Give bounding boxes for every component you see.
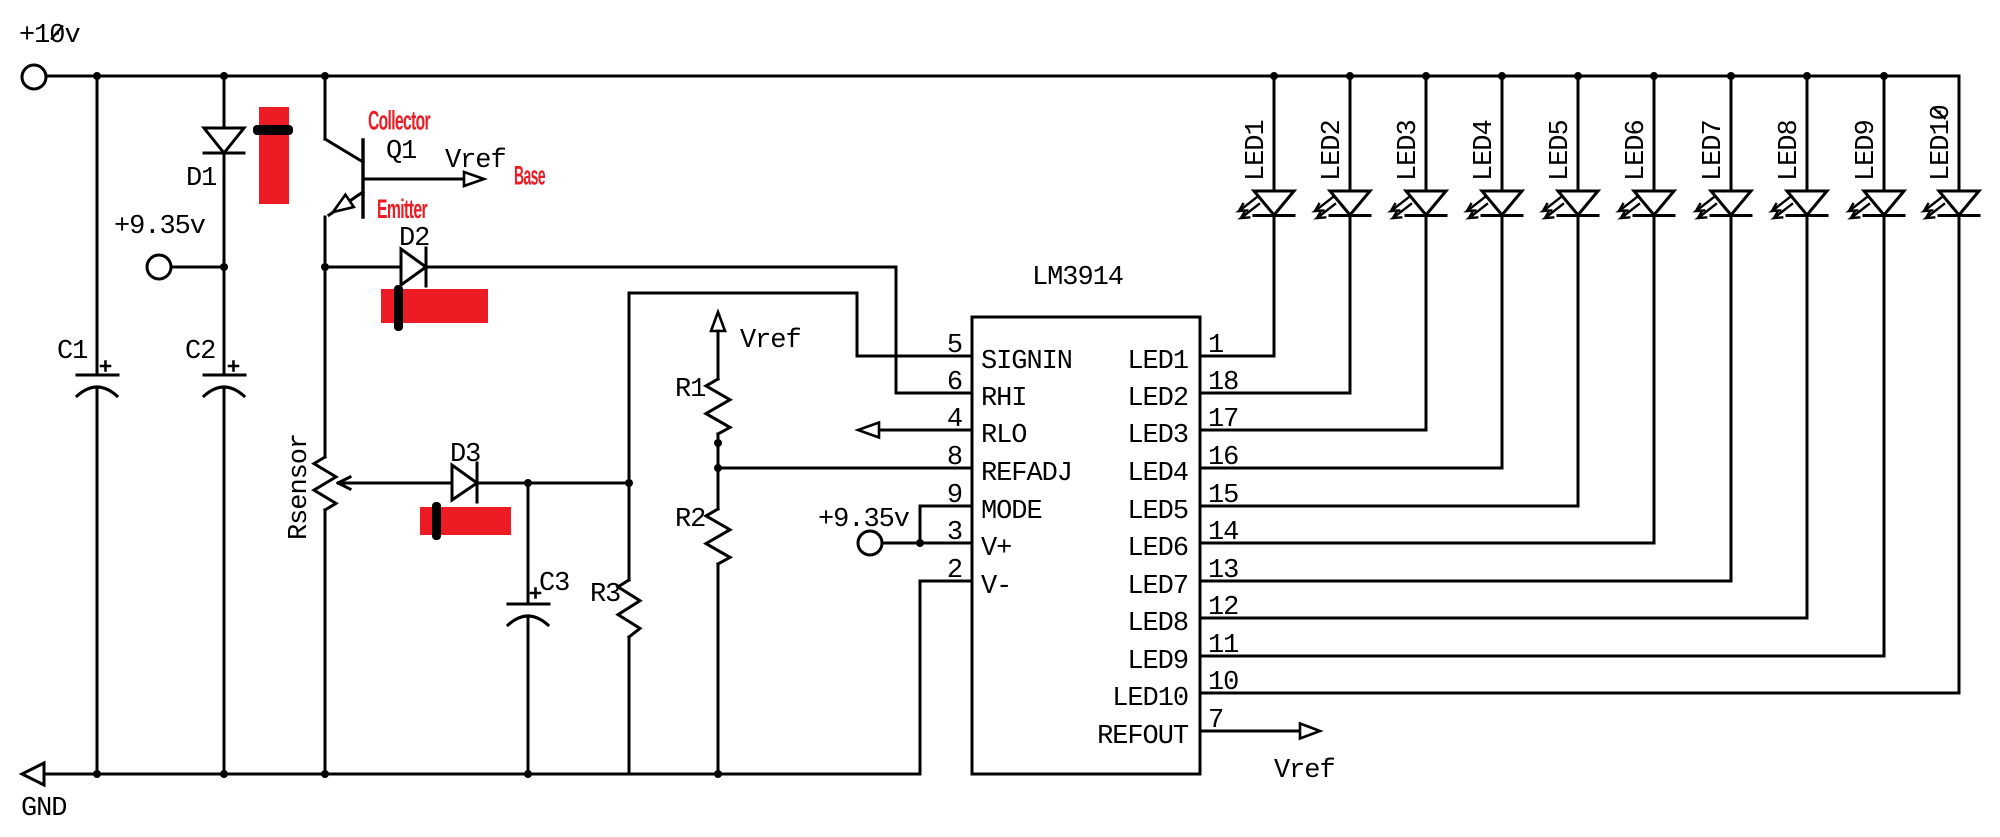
wire RLO pin 4 [879,429,972,432]
junction LED9 on +10v rail [1880,72,1888,80]
terminal +9.35v (V+) [858,531,882,555]
svg-text:R3: R3 [590,580,620,610]
svg-text:12: 12 [1208,593,1238,623]
svg-text:MODE: MODE [981,497,1042,527]
wire Q1 base to Vref arrow [363,178,464,181]
svg-text:R1: R1 [675,375,705,405]
wire Q1 collector from rail [324,76,327,139]
ground arrow [22,763,44,785]
junction LED3 on +10v rail [1422,72,1430,80]
resistor R1 [706,379,730,434]
resistor R2 [706,509,730,564]
junction D1 on +10v rail [220,72,228,80]
junction C1 on ground rail [93,770,101,778]
wire D2 to RHI corner [426,266,896,269]
svg-text:Collector: Collector [368,106,431,136]
wire Rsensor wiper to D3 [339,482,452,485]
wire pin 15 to LED5 column [1200,505,1578,508]
wire terminal to D1 column [171,266,224,269]
red marker over D2 [381,289,488,323]
svg-text:V+: V+ [981,534,1011,564]
svg-text:R2: R2 [675,505,705,535]
svg-text:LED6: LED6 [1127,534,1188,564]
wire D3 cathode to C3 node [477,482,528,485]
diode D1 [204,128,244,153]
svg-text:GND: GND [21,794,66,824]
red marker over D3 [420,507,511,535]
junction R2 on ground rail [714,770,722,778]
wire Vref arrow to R1 [717,331,720,379]
wire R3 node up to SIGNIN route [628,293,631,483]
svg-text:6: 6 [947,368,962,398]
junction R3 top [625,479,633,487]
wire C3 top [527,483,530,604]
junction LED7 on +10v rail [1727,72,1735,80]
wire Q1 emitter down [324,217,327,267]
wire R3 bottom to ground [628,637,631,774]
resistor R3 [618,580,640,637]
junction LED1 on +10v rail [1270,72,1278,80]
svg-text:C3: C3 [539,569,569,599]
svg-text:17: 17 [1208,405,1238,435]
junction Q1 emitter / D2 [321,263,329,271]
potentiometer Rsensor [314,457,336,510]
svg-text:16: 16 [1208,443,1238,473]
svg-text:RHI: RHI [981,384,1026,414]
black band on D1 marker [253,125,293,135]
terminal +9.35v (left) [147,255,171,279]
LED6 [1619,76,1674,543]
C1 polarity + [101,362,110,371]
svg-text:D1: D1 [186,164,216,194]
svg-text:D2: D2 [399,224,429,254]
wire C1 branch top [96,76,99,375]
svg-text:LED5: LED5 [1546,120,1576,181]
svg-text:13: 13 [1208,556,1238,586]
wire R3 top [628,483,631,580]
wire R2 bottom to ground [717,564,720,774]
junction LED5 on +10v rail [1574,72,1582,80]
arrow Vref (R1 top) [711,312,725,331]
slashed zero of LED10 label [1933,107,1946,119]
svg-text:LED3: LED3 [1127,421,1188,451]
wire RHI vertical into pin 6 [896,267,972,393]
diode D2 [401,249,426,285]
wire pin 12 to LED8 column [1200,617,1807,620]
wire pin 17 to LED3 column [1200,429,1426,432]
wire pin 16 to LED4 column [1200,467,1502,470]
svg-text:LM3914: LM3914 [1032,263,1123,293]
junction MODE / V+ [916,539,924,547]
svg-text:LED7: LED7 [1127,572,1188,602]
wire Rsensor bottom to ground [324,510,327,774]
LED2 [1315,76,1370,393]
svg-text:C1: C1 [57,337,87,367]
terminal +10v [22,65,46,89]
junction REFADJ node [714,464,722,472]
wire +10v top rail [46,75,1959,78]
black band on D3 marker [432,502,441,540]
capacitor C2 [204,374,245,377]
svg-text:Rsensor: Rsensor [285,434,315,540]
Rsensor wiper arrow [338,477,350,489]
svg-text:14: 14 [1208,518,1238,548]
LED4 [1467,76,1522,468]
junction C3 top [524,479,532,487]
arrow RLO [858,423,879,438]
black band on D2 marker [394,285,403,331]
svg-text:11: 11 [1208,631,1238,661]
svg-text:LED1: LED1 [1127,347,1188,377]
svg-text:LED1: LED1 [1242,120,1272,181]
svg-text:Vref: Vref [445,146,506,176]
wire SIGNIN route [629,293,972,356]
svg-text:5: 5 [947,331,962,361]
arrow Vref (base) [464,172,484,186]
wire pin 10 to LED10 column [1200,692,1959,695]
wire pin 14 to LED6 column [1200,542,1654,545]
diode D3 [452,465,477,500]
LED1 [1239,76,1294,356]
junction Rsensor on ground rail [321,770,329,778]
C2 polarity + [229,362,238,371]
LED8 [1772,76,1827,618]
junction Q1 on +10v rail [321,72,329,80]
svg-text:+9.35v: +9.35v [818,505,910,535]
C3 polarity + [531,589,540,598]
transistor Q1 [325,139,363,162]
wire pin 13 to LED7 column [1200,580,1731,583]
wire REFOUT pin 7 [1200,730,1300,733]
junction R1 bottom [714,439,722,447]
LED9 [1849,76,1904,656]
svg-text:LED8: LED8 [1775,120,1805,181]
junction LED4 on +10v rail [1498,72,1506,80]
wire V- pin 2 to ground [920,581,972,774]
svg-text:LED2: LED2 [1318,120,1348,181]
svg-text:Base: Base [514,161,546,191]
junction LED2 on +10v rail [1346,72,1354,80]
wire C3 node to R3 node [528,482,629,485]
arrow Vref (REFOUT) [1300,724,1320,739]
wire R1 bottom to REFADJ node [717,434,720,468]
svg-text:LED9: LED9 [1127,647,1188,677]
junction +9.35v / D1 column [220,263,228,271]
svg-text:18: 18 [1208,368,1238,398]
svg-text:7: 7 [1208,706,1223,736]
junction LED8 on +10v rail [1803,72,1811,80]
wire D1 cathode down [223,153,226,375]
wire emitter node down to Rsensor [324,267,327,457]
wire MODE pin 9 to V+ [920,506,972,543]
LED10 [1924,76,1979,693]
wire pin 18 to LED2 column [1200,392,1350,395]
red marker over D1 [259,107,289,204]
capacitor C1 [77,374,118,377]
svg-text:+9.35v: +9.35v [114,212,206,242]
wire pin 11 to LED9 column [1200,655,1884,658]
svg-text:C2: C2 [185,337,215,367]
svg-text:LED9: LED9 [1852,120,1882,181]
svg-text:SIGNIN: SIGNIN [981,347,1072,377]
svg-text:D3: D3 [450,440,480,470]
op-amp U1 LM3914 body [972,317,1200,774]
svg-text:Emitter: Emitter [377,194,428,224]
svg-text:Vref: Vref [1274,756,1335,786]
svg-text:+10v: +10v [19,21,80,51]
capacitor C3 [508,603,549,606]
LED3 [1391,76,1446,430]
wire REFADJ node to R2 [717,468,720,509]
svg-text:RLO: RLO [981,421,1026,451]
wire REFADJ pin 8 [718,467,972,470]
svg-text:LED2: LED2 [1127,384,1188,414]
svg-text:9: 9 [947,481,962,511]
LED5 [1543,76,1598,506]
svg-text:LED4: LED4 [1127,459,1188,489]
svg-text:REFOUT: REFOUT [1097,722,1189,752]
svg-text:3: 3 [947,518,962,548]
junction C1 on +10v rail [93,72,101,80]
svg-text:1: 1 [1208,331,1223,361]
svg-text:2: 2 [947,556,962,586]
wire pin 1 to LED1 column [1200,355,1274,358]
svg-text:LED10: LED10 [1112,684,1188,714]
svg-text:LED6: LED6 [1622,120,1652,181]
svg-text:V-: V- [981,572,1011,602]
wire emitter node to D2 [325,266,401,269]
svg-text:15: 15 [1208,481,1238,511]
junction C2 on ground rail [220,770,228,778]
svg-text:LED8: LED8 [1127,609,1188,639]
wire D1 branch top [223,76,226,128]
junction LED6 on +10v rail [1650,72,1658,80]
slashed zero of +10v [51,26,63,40]
svg-text:10: 10 [1208,668,1238,698]
svg-text:REFADJ: REFADJ [981,459,1072,489]
svg-text:Vref: Vref [740,326,801,356]
LED7 [1696,76,1751,581]
svg-text:LED4: LED4 [1470,120,1500,181]
wire V+ pin 3 [882,542,972,545]
svg-text:LED7: LED7 [1699,120,1729,181]
svg-text:LED3: LED3 [1394,120,1424,181]
junction C3 on ground rail [524,770,532,778]
svg-text:Q1: Q1 [386,137,416,167]
svg-text:4: 4 [947,405,962,435]
svg-text:8: 8 [947,443,962,473]
svg-text:LED5: LED5 [1127,497,1188,527]
ground rail wire [44,773,920,776]
